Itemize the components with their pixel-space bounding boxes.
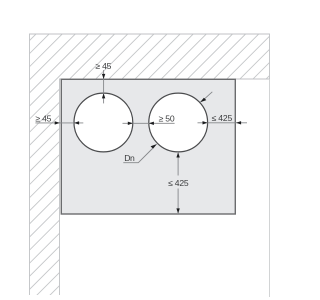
dimension left ≥45 : arrow left at circle edge (74, 121, 79, 124)
dimension bottom ≤425 : upper line (177, 153, 179, 176)
dimension middle ≥50 : arrow right at left circle edge (128, 122, 133, 125)
dimension right ≤425 : line (198, 122, 248, 124)
dimension middle ≥50 : line (123, 122, 175, 124)
leader top-right : diagonal line (204, 92, 212, 99)
dimension right ≤425 : arrow right at circle edge (203, 121, 208, 124)
svg-text:Dn: Dn (124, 153, 135, 163)
dimension right ≤425 : arrow left at panel edge (236, 121, 241, 124)
wall outline (30, 34, 270, 295)
leader top-right : arrowhead at circle edge (200, 98, 206, 103)
worktop panel (61, 79, 235, 214)
dimension left ≥45 : arrow right at wall edge (55, 121, 60, 124)
right niche line (269, 79, 271, 297)
hole circle right (149, 93, 208, 152)
svg-text:≥ 45: ≥ 45 (35, 113, 51, 123)
leader Dn : underline and diagonal (123, 149, 152, 163)
svg-text:≤ 425: ≤ 425 (212, 113, 233, 123)
dimension top ≥45 : line (103, 70, 105, 103)
hole circle left (74, 93, 133, 152)
svg-text:≥ 45: ≥ 45 (95, 61, 111, 71)
dimension top ≥45 : arrow up at circle top (102, 93, 105, 98)
dimension top ≥45 : arrow down at wall edge (102, 74, 105, 79)
svg-text:≤ 425: ≤ 425 (168, 178, 189, 188)
dimension middle ≥50 : arrow left at right circle edge (149, 122, 154, 125)
dimension bottom ≤425 : arrow down at panel bottom (176, 208, 179, 213)
dimension bottom ≤425 : lower line (177, 189, 179, 214)
dimension left ≥45 : line (35, 122, 83, 124)
dimension bottom ≤425 : arrow up at circle bottom (176, 152, 179, 157)
svg-text:≥ 50: ≥ 50 (159, 113, 175, 123)
leader Dn : arrowhead at circle edge (151, 144, 157, 149)
